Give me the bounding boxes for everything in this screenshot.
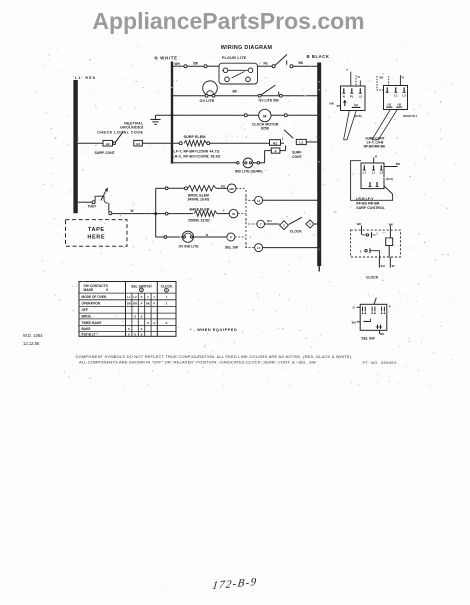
- svg-text:T: T: [260, 223, 262, 227]
- svg-text:X: X: [140, 327, 142, 331]
- svg-text:WH: WH: [175, 62, 181, 66]
- svg-text:FLOUR LITE: FLOUR LITE: [222, 56, 247, 60]
- svg-text:L1: L1: [127, 295, 131, 299]
- svg-text:L2: L2: [134, 295, 138, 299]
- svg-text:L2: L2: [257, 246, 261, 250]
- svg-text:X: X: [165, 321, 167, 325]
- svg-text:BK: BK: [379, 75, 383, 79]
- svg-text:SURF: SURF: [292, 150, 302, 154]
- svg-text:(N-8): (N-8): [355, 114, 362, 118]
- svg-text:X: X: [147, 321, 149, 325]
- svg-text:SEL SW: SEL SW: [225, 245, 239, 249]
- svg-text:(N-5): (N-5): [386, 177, 393, 181]
- svg-text:X: X: [140, 332, 142, 336]
- svg-text:THST: THST: [88, 205, 97, 209]
- svg-text:BK: BK: [146, 302, 150, 306]
- svg-text:H1: H1: [387, 103, 391, 107]
- svg-text:BR: BR: [133, 302, 137, 306]
- svg-text:RF-BU RR-BR: RF-BU RR-BR: [356, 201, 380, 205]
- svg-text:CLOCK: CLOCK: [366, 275, 379, 279]
- svg-text:LR-C, RF-BO=2100W, 36.6Ω: LR-C, RF-BO=2100W, 36.6Ω: [173, 154, 221, 158]
- svg-text:P: P: [153, 302, 155, 306]
- svg-text:BAKE: BAKE: [82, 327, 91, 331]
- svg-text:OPERATION: OPERATION: [82, 302, 101, 306]
- svg-text:X: X: [153, 321, 155, 325]
- svg-text:L2: L2: [359, 94, 363, 98]
- svg-text:H2: H2: [136, 142, 140, 146]
- svg-text:12.12.85: 12.12.85: [23, 341, 40, 346]
- svg-text:RF-BK/RR-BK: RF-BK/RR-BK: [364, 145, 386, 149]
- svg-text:2500W, 23.5Ω: 2500W, 23.5Ω: [188, 219, 210, 223]
- svg-text:SURF CONT: SURF CONT: [95, 151, 116, 155]
- svg-text:SURF CONTROL: SURF CONTROL: [356, 206, 385, 210]
- svg-text:SEL SW: SEL SW: [361, 337, 375, 341]
- svg-text:COMPONENT SYMBOLS DO NOT REFLE: COMPONENT SYMBOLS DO NOT REFLECT TRUE CO…: [76, 354, 353, 359]
- svg-text:AppliancePartsPros.com: AppliancePartsPros.com: [92, 8, 364, 34]
- svg-text:CLOCK: CLOCK: [161, 284, 173, 288]
- svg-text:SURF ELEM: SURF ELEM: [184, 135, 206, 139]
- svg-text:IND LITE (SURF): IND LITE (SURF): [235, 169, 262, 173]
- svg-text:BK: BK: [299, 61, 304, 65]
- svg-text:LF-Y, RF-BR=1250W 44.7Ω: LF-Y, RF-BR=1250W 44.7Ω: [174, 149, 220, 153]
- svg-text:P: P: [141, 302, 143, 306]
- svg-text:WIRING DIAGRAM: WIRING DIAGRAM: [221, 45, 273, 51]
- svg-text:X: X: [134, 332, 136, 336]
- svg-text:BR: BR: [127, 302, 131, 306]
- svg-text:N: N: [343, 94, 345, 98]
- svg-text:L2: L2: [380, 170, 384, 174]
- svg-text:BAKE ELEM: BAKE ELEM: [190, 208, 210, 212]
- svg-text:X: X: [128, 332, 130, 336]
- svg-text:N WHITE: N WHITE: [155, 55, 178, 60]
- svg-text:* - WHEN EQUIPPED: * - WHEN EQUIPPED: [190, 328, 237, 332]
- svg-text:GROUNDED: GROUNDED: [120, 126, 143, 130]
- svg-text:L2: L2: [402, 93, 406, 97]
- svg-text:CONT: CONT: [292, 155, 303, 159]
- svg-text:(ROUTS.): (ROUTS.): [403, 114, 417, 118]
- svg-text:W: W: [232, 212, 235, 216]
- svg-text:MODE OF OVEN: MODE OF OVEN: [82, 295, 107, 299]
- svg-text:BK: BK: [233, 90, 238, 94]
- svg-text:L1: L1: [363, 170, 367, 174]
- svg-text:TAPE: TAPE: [88, 227, 105, 233]
- svg-text:OV LITE SW: OV LITE SW: [259, 99, 280, 103]
- svg-text:L2: L2: [257, 199, 261, 203]
- svg-text:L1: L1: [372, 170, 376, 174]
- svg-text:H2: H2: [106, 142, 110, 146]
- svg-text:H2: H2: [397, 103, 401, 107]
- svg-text:BU: BU: [381, 264, 385, 268]
- svg-text:MADE: MADE: [84, 288, 95, 292]
- svg-text:X: X: [140, 314, 142, 318]
- svg-text:HERE: HERE: [87, 234, 105, 240]
- svg-text:TIMED BAKE: TIMED BAKE: [82, 321, 102, 325]
- svg-text:X: X: [128, 327, 130, 331]
- svg-text:'L1' RED: 'L1' RED: [73, 76, 96, 80]
- svg-text:OV IND LITE: OV IND LITE: [179, 245, 200, 249]
- svg-text:F: F: [275, 149, 277, 153]
- svg-text:PT. NO. 330593: PT. NO. 330593: [363, 361, 397, 365]
- svg-text:350: 350: [193, 62, 199, 66]
- svg-text:W: W: [131, 209, 134, 213]
- svg-text:W.D. 1064: W.D. 1064: [23, 333, 43, 338]
- svg-text:CLOCK: CLOCK: [290, 230, 303, 234]
- svg-text:L1: L1: [299, 141, 303, 145]
- svg-text:BROIL: BROIL: [82, 314, 92, 318]
- svg-text:P: P: [389, 305, 391, 309]
- svg-text:3400W, 16.4Ω: 3400W, 16.4Ω: [188, 198, 210, 202]
- svg-text:BK: BK: [396, 162, 401, 166]
- svg-text:H2: H2: [354, 103, 358, 107]
- svg-text:H1: H1: [273, 141, 277, 145]
- svg-text:OFF: OFF: [82, 308, 88, 312]
- svg-text:Y: Y: [346, 68, 348, 72]
- svg-text:P: P: [230, 235, 232, 239]
- svg-text:W: W: [392, 264, 395, 268]
- svg-text:CHECK LOCAL CODE: CHECK LOCAL CODE: [97, 131, 143, 135]
- svg-text:FE: FE: [264, 62, 268, 66]
- svg-text:8258: 8258: [261, 127, 269, 131]
- svg-text:SW CONTACTS: SW CONTACTS: [84, 284, 109, 288]
- svg-text:X: X: [134, 314, 136, 318]
- svg-text:Y: Y: [147, 295, 149, 299]
- svg-text:B BLACK: B BLACK: [307, 54, 330, 59]
- svg-text:BU: BU: [267, 219, 272, 223]
- svg-text:BK: BK: [330, 102, 335, 106]
- svg-text:PL: PL: [350, 94, 354, 98]
- svg-text:ALL COMPONENTS ARE SHOWN IN "O: ALL COMPONENTS ARE SHOWN IN "OFF" OR "RE…: [79, 360, 317, 365]
- svg-text:OV LITE: OV LITE: [200, 99, 215, 103]
- svg-text:L1: L1: [394, 93, 398, 97]
- svg-text:PST-B LT *: PST-B LT *: [82, 332, 99, 336]
